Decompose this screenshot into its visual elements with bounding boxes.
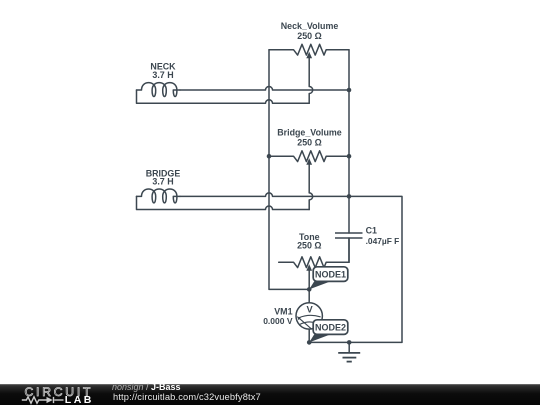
node NODE1 flag	[309, 267, 348, 290]
svg-text:http://circuitlab.com/c32vuebf: http://circuitlab.com/c32vuebfy8tx7	[113, 392, 261, 402]
node NODE2 flag	[309, 320, 348, 343]
CircuitLab logo	[22, 385, 94, 405]
wire: left bus V1 from Neck_Volume left terminal down to NODE1	[269, 50, 309, 290]
svg-text:250 Ω: 250 Ω	[297, 241, 321, 251]
ground	[338, 342, 360, 361]
potentiometer Neck_Volume 250Ω	[269, 21, 349, 59]
svg-text:LAB: LAB	[65, 394, 94, 405]
svg-text:NODE2: NODE2	[315, 323, 346, 333]
svg-text:nonsign / J-Bass: nonsign / J-Bass	[112, 382, 181, 392]
wire: Tone right terminal up to C1	[348, 238, 350, 262]
junction: ground tap on bottom wire	[347, 340, 352, 345]
junction: NODE1 (V1 bus, tone wiper, VM1 top)	[307, 287, 312, 292]
junction: neck top wire on right bus	[347, 88, 352, 93]
junction: Bridge_Volume left terminal on V1	[267, 154, 272, 159]
footer title: nonsign / J-Bass	[112, 382, 261, 402]
wire: NECK bottom loop to Neck_Volume wiper, hop over V1	[137, 90, 310, 103]
svg-text:.047µF F: .047µF F	[366, 236, 400, 246]
potentiometer Bridge_Volume 250Ω	[269, 127, 349, 165]
svg-text:VM1: VM1	[274, 306, 292, 316]
inductor BRIDGE 3.7 H	[137, 168, 181, 203]
svg-text:3.7 H: 3.7 H	[152, 70, 173, 80]
svg-text:C1: C1	[366, 226, 377, 236]
wire: BRIDGE bottom loop to Bridge_Volume wiper, hop over V1	[137, 196, 310, 209]
junction: NODE2 (VM1 bottom, bottom wire)	[307, 340, 312, 345]
capacitor C1 .047µF	[335, 226, 399, 247]
wire: NECK top terminal right, hop over V1, to right bus V2	[180, 87, 349, 91]
wire: right outer loop from V2 to NODE2 bottom wire	[309, 196, 402, 342]
footer bar	[0, 384, 540, 405]
voltmeter VM1 0.000 V	[263, 303, 322, 329]
svg-text:250 Ω: 250 Ω	[297, 31, 321, 41]
potentiometer Tone 250Ω	[279, 232, 349, 271]
svg-text:Bridge_Volume: Bridge_Volume	[277, 127, 342, 137]
inductor NECK 3.7 H	[137, 62, 181, 97]
wire: VM1 bottom terminal to NODE2 junction	[308, 329, 310, 342]
wire: C1 bottom plate down to Tone right terminal	[348, 238, 350, 262]
wire: Neck_Volume wiper shaft down, hop over neck top wire, join neck bottom wire	[309, 58, 313, 103]
svg-text:250 Ω: 250 Ω	[297, 138, 321, 148]
wire: NODE1 to VM1 top terminal	[308, 289, 310, 302]
junction: Bridge_Volume right terminal on V2	[347, 154, 352, 159]
wire: Tone wiper down to NODE1 junction	[308, 271, 310, 290]
svg-text:V: V	[306, 304, 313, 314]
svg-text:0.000 V: 0.000 V	[263, 316, 293, 326]
svg-text:NODE1: NODE1	[315, 270, 346, 280]
wire: BRIDGE top terminal right, hop over V1, to right bus V2	[180, 193, 349, 196]
junction: bridge top wire on right bus V2	[347, 194, 352, 199]
svg-text:Neck_Volume: Neck_Volume	[281, 21, 339, 31]
wire: Bridge_Volume wiper shaft down, hop over bridge top wire, join bridge bottom wire	[309, 165, 313, 210]
wire: right bus V2 from Neck_Volume right terminal down to C1 top plate	[348, 50, 350, 233]
svg-text:3.7 H: 3.7 H	[152, 177, 173, 187]
